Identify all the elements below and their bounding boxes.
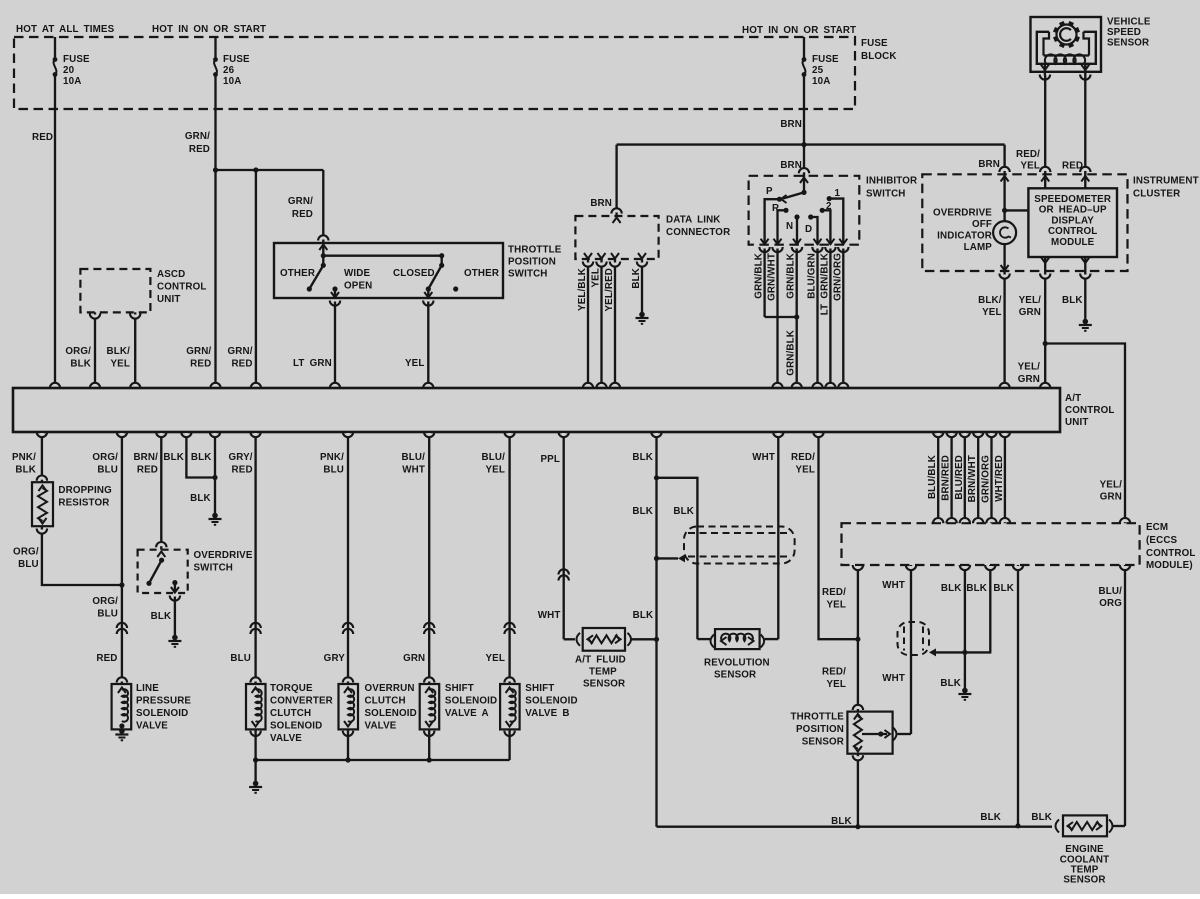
svg-text:SENSOR: SENSOR xyxy=(802,737,844,748)
ECM dashed box xyxy=(842,523,1140,565)
wire YEL/RED from DLC to A/T xyxy=(614,259,616,388)
switch blade 2 (CLOSED) xyxy=(439,263,444,268)
svg-text:GRY: GRY xyxy=(324,653,346,664)
fuse 26 10A xyxy=(214,37,216,60)
svg-text:BLK: BLK xyxy=(1031,812,1052,823)
svg-text:GRN/BLK: GRN/BLK xyxy=(786,253,797,299)
wire BLK from A/T jog xyxy=(186,432,215,478)
svg-text:PNK/: PNK/ xyxy=(12,452,36,463)
svg-text:10A: 10A xyxy=(812,76,830,87)
svg-text:PNK/: PNK/ xyxy=(320,452,344,463)
svg-text:RED/: RED/ xyxy=(1016,149,1040,160)
svg-text:BLK: BLK xyxy=(191,452,212,463)
svg-text:BLK: BLK xyxy=(993,583,1014,594)
svg-text:BRN: BRN xyxy=(780,119,802,130)
vehicle speed sensor lead RED xyxy=(1084,64,1086,76)
svg-text:GRN/: GRN/ xyxy=(228,346,253,357)
svg-text:RED: RED xyxy=(189,144,210,155)
svg-text:INSTRUMENT: INSTRUMENT xyxy=(1133,176,1199,187)
junction dot GRN/RED xyxy=(213,167,218,172)
ground (overdrive switch) xyxy=(172,635,178,641)
overrun clutch solenoid valve xyxy=(339,684,359,729)
svg-text:BLU: BLU xyxy=(230,653,251,664)
svg-text:SPEEDOMETER: SPEEDOMETER xyxy=(1034,194,1111,205)
inhibitor switch dashed box xyxy=(749,176,860,245)
svg-text:GRN/BLK: GRN/BLK xyxy=(786,330,797,376)
A/T control unit box xyxy=(13,388,1060,432)
svg-text:BRN: BRN xyxy=(780,160,802,171)
svg-text:BLK: BLK xyxy=(633,610,654,621)
svg-text:BRN/WHT: BRN/WHT xyxy=(967,455,978,502)
svg-text:SHIFT: SHIFT xyxy=(445,683,474,694)
shift solenoid valve A xyxy=(420,684,440,729)
svg-text:BLK: BLK xyxy=(1062,295,1083,306)
wire GRY/RED from A/T to torque converter clutch solenoid valve xyxy=(254,432,256,684)
svg-text:GRN: GRN xyxy=(1018,374,1040,385)
svg-text:RED: RED xyxy=(32,132,53,143)
svg-text:LINE: LINE xyxy=(136,683,159,694)
svg-text:BLU/: BLU/ xyxy=(1099,586,1123,597)
wire RED/YEL from ECM to throttle position sensor xyxy=(857,565,859,712)
svg-text:RED: RED xyxy=(137,465,158,476)
fuse 20 10A xyxy=(54,37,56,60)
ground (BLK pair) xyxy=(212,513,218,519)
wire BLK/YEL from ASCD to A/T xyxy=(134,312,136,388)
svg-text:SOLENOID: SOLENOID xyxy=(136,708,188,719)
vehicle speed sensor pickup yoke xyxy=(1037,32,1096,64)
wire BRN/RED from A/T to overdrive switch xyxy=(160,432,162,550)
wire BLK from A/T down to bottom bus xyxy=(655,432,657,827)
svg-text:YEL: YEL xyxy=(826,600,846,611)
wire BRN from fuse 25 down to inhibitor switch xyxy=(803,75,805,193)
svg-text:WHT/RED: WHT/RED xyxy=(994,455,1005,502)
svg-text:TORQUE: TORQUE xyxy=(270,683,313,694)
engine coolant temp sensor xyxy=(1056,820,1060,833)
contact 1 xyxy=(827,196,832,201)
inhibitor switch exit arrows and connectors xyxy=(761,239,769,245)
svg-text:BLU/RED: BLU/RED xyxy=(954,455,965,500)
svg-text:OVERDRIVE: OVERDRIVE xyxy=(933,208,992,219)
wire from sensor bottom to bottom bus xyxy=(857,754,859,827)
svg-text:SWITCH: SWITCH xyxy=(508,269,548,280)
svg-text:SHIFT: SHIFT xyxy=(525,683,554,694)
svg-text:BLK: BLK xyxy=(980,812,1001,823)
wire BLU/ORG from ECM to engine coolant temp sensor xyxy=(1124,565,1126,826)
wire PNK/BLU from A/T to overrun clutch solenoid valve xyxy=(347,432,349,684)
svg-text:VALVE: VALVE xyxy=(270,733,302,744)
svg-text:BLK/: BLK/ xyxy=(107,346,131,357)
wire WHT from ECM to throttle position sensor wiper xyxy=(910,565,912,734)
wire YEL/GRN from speedometer to A/T xyxy=(1044,257,1046,388)
svg-text:HOT IN ON OR START: HOT IN ON OR START xyxy=(742,25,856,36)
svg-text:YEL: YEL xyxy=(485,653,505,664)
svg-text:R: R xyxy=(772,203,779,214)
svg-text:RED: RED xyxy=(292,209,313,220)
svg-text:BLU: BLU xyxy=(18,559,39,570)
wire BLK from ECM to bottom bus xyxy=(1017,565,1019,826)
dropping resistor xyxy=(32,482,53,526)
svg-text:CLUTCH: CLUTCH xyxy=(270,708,311,719)
throttle position sensor box xyxy=(847,712,892,754)
svg-text:VALVE A: VALVE A xyxy=(445,708,489,719)
contact P xyxy=(777,197,782,202)
svg-text:VALVE B: VALVE B xyxy=(525,708,569,719)
line pressure solenoid valve xyxy=(112,684,132,729)
svg-text:20: 20 xyxy=(63,65,75,76)
inhibitor switch connector at top xyxy=(802,169,805,172)
svg-text:BRN/: BRN/ xyxy=(133,452,158,463)
ground (data link connector) xyxy=(639,312,645,318)
shield drain to connector capsule xyxy=(657,557,679,559)
svg-text:YEL/: YEL/ xyxy=(1018,362,1041,373)
throttle position switch box xyxy=(274,243,503,298)
svg-text:ORG/: ORG/ xyxy=(92,596,118,607)
ground (speedometer BLK) xyxy=(1083,319,1089,325)
inhibitor switch pivot and blade xyxy=(801,190,806,195)
contact OTHER right xyxy=(453,286,458,291)
contact N xyxy=(794,214,799,219)
vehicle speed sensor lead RED/YEL xyxy=(1044,64,1046,76)
throttle position switch internal wiring xyxy=(322,243,324,265)
throttle position sensor resistor xyxy=(854,716,862,749)
svg-text:YEL/: YEL/ xyxy=(1100,480,1123,491)
svg-text:PRESSURE: PRESSURE xyxy=(136,696,191,707)
wire BLK from ECM to ground xyxy=(964,565,966,689)
wire YEL from switch to A/T xyxy=(427,289,429,298)
svg-text:BRN: BRN xyxy=(590,198,612,209)
svg-text:YEL/RED: YEL/RED xyxy=(604,268,615,312)
svg-text:RED: RED xyxy=(96,653,117,664)
svg-text:INDICATOR: INDICATOR xyxy=(937,231,992,242)
bottom BLK bus xyxy=(657,826,1053,828)
overdrive switch dashed box xyxy=(138,550,188,593)
svg-text:CONTROL: CONTROL xyxy=(1065,405,1114,416)
svg-text:ASCD: ASCD xyxy=(157,269,185,280)
svg-text:OVERDRIVE: OVERDRIVE xyxy=(194,550,253,561)
svg-text:CLUTCH: CLUTCH xyxy=(365,696,406,707)
svg-text:YEL: YEL xyxy=(591,268,602,288)
wire GRN/RED branch to A/T xyxy=(255,170,257,388)
wire PNK/BLK from A/T to dropping resistor xyxy=(41,432,43,482)
wire GRN/BLK jog to GRN/BLK wire xyxy=(765,316,797,318)
svg-text:10A: 10A xyxy=(63,76,81,87)
svg-text:WIDE: WIDE xyxy=(344,268,370,279)
svg-text:BLK: BLK xyxy=(831,816,852,827)
vehicle speed sensor gear rotor xyxy=(1057,25,1077,45)
svg-text:GRN/ORG: GRN/ORG xyxy=(981,455,992,503)
svg-text:BLOCK: BLOCK xyxy=(861,51,897,62)
svg-text:BRN: BRN xyxy=(978,159,1000,170)
svg-text:FUSE: FUSE xyxy=(63,54,90,65)
A/T fluid temp sensor xyxy=(577,633,581,646)
wire YEL/BLK from DLC to A/T xyxy=(587,259,589,388)
svg-text:WHT: WHT xyxy=(538,610,561,621)
wire GRN/RED from fuse 26 xyxy=(214,75,216,389)
svg-text:CONVERTER: CONVERTER xyxy=(270,696,333,707)
wire ORG/BLK from ASCD to A/T xyxy=(94,312,96,388)
svg-text:SWITCH: SWITCH xyxy=(194,563,234,574)
svg-text:YEL/: YEL/ xyxy=(1019,295,1042,306)
svg-text:YEL: YEL xyxy=(405,358,425,369)
wire BLK from A/T to ground xyxy=(214,432,216,514)
svg-text:BLK: BLK xyxy=(941,583,962,594)
svg-text:BLK: BLK xyxy=(151,611,172,622)
wire RED/YEL from A/T xyxy=(819,432,858,639)
junction YEL/GRN branch xyxy=(1043,341,1048,346)
svg-text:CONTROL: CONTROL xyxy=(1048,226,1097,237)
svg-text:RED/: RED/ xyxy=(822,587,846,598)
svg-text:WHT: WHT xyxy=(402,465,425,476)
svg-text:INHIBITOR: INHIBITOR xyxy=(866,176,917,187)
fuse 25 10A xyxy=(803,37,805,60)
svg-text:GRY/: GRY/ xyxy=(228,452,252,463)
wire BLK/YEL from lamp to A/T xyxy=(1003,244,1005,388)
svg-text:ORG/: ORG/ xyxy=(92,452,118,463)
wire BLU/YEL from A/T to shift solenoid valve B xyxy=(508,432,510,684)
svg-text:BLK: BLK xyxy=(632,506,653,517)
svg-text:BRN/RED: BRN/RED xyxy=(941,455,952,501)
solenoid ground bus xyxy=(256,759,510,761)
svg-text:DROPPING: DROPPING xyxy=(58,485,112,496)
svg-text:BLU/: BLU/ xyxy=(482,452,506,463)
svg-text:VALVE: VALVE xyxy=(365,721,397,732)
wire GRN/WHT from inhibitor R to A/T xyxy=(776,249,778,389)
contact R xyxy=(783,208,788,213)
wire BLU/GRN from inhibitor D to A/T xyxy=(816,249,818,389)
overdrive off indicator lamp xyxy=(1002,208,1007,213)
svg-text:UNIT: UNIT xyxy=(1065,417,1088,428)
wire WHT from A/T to revolution sensor xyxy=(777,432,779,639)
wire BLU/WHT from A/T to shift solenoid valve A xyxy=(428,432,430,684)
svg-text:SOLENOID: SOLENOID xyxy=(445,696,497,707)
svg-text:SPEED: SPEED xyxy=(1107,27,1141,38)
svg-text:BLK: BLK xyxy=(632,452,653,463)
wire BLK from ECM jog xyxy=(989,565,991,652)
svg-text:BLU: BLU xyxy=(323,465,344,476)
svg-text:ORG: ORG xyxy=(1099,598,1122,609)
svg-text:CONTROL: CONTROL xyxy=(1146,548,1195,559)
ground (line pressure solenoid valve) xyxy=(119,728,125,734)
svg-text:LT GRN/BLK: LT GRN/BLK xyxy=(820,253,831,315)
wire ORG/BLU from dropping resistor xyxy=(42,526,122,585)
vehicle speed sensor coil xyxy=(1045,54,1085,63)
svg-text:CONNECTOR: CONNECTOR xyxy=(666,227,730,238)
wire BRN into instrument cluster xyxy=(1003,145,1005,221)
vehicle speed sensor box xyxy=(1031,17,1102,72)
svg-text:BLK: BLK xyxy=(190,493,211,504)
svg-text:CONTROL: CONTROL xyxy=(157,282,206,293)
svg-text:A/T: A/T xyxy=(1065,393,1081,404)
svg-text:SWITCH: SWITCH xyxy=(866,189,906,200)
svg-text:YEL: YEL xyxy=(110,359,130,370)
wire BRN into data link connector xyxy=(615,145,617,216)
svg-text:OVERRUN: OVERRUN xyxy=(365,683,415,694)
switch blade 1 (OTHER) xyxy=(321,263,326,268)
wire BRN horizontal bus from fuse 25 xyxy=(617,143,1005,145)
svg-text:SENSOR: SENSOR xyxy=(714,670,756,681)
svg-text:ORG/: ORG/ xyxy=(65,346,91,357)
svg-text:GRN: GRN xyxy=(1100,492,1122,503)
wire GRN/ORG from inhibitor 1 to A/T xyxy=(842,249,844,389)
svg-text:P: P xyxy=(766,186,773,197)
wire RED from fuse 20 to A/T control unit xyxy=(54,75,56,389)
svg-text:YEL: YEL xyxy=(795,465,815,476)
wire LT GRN from switch to A/T xyxy=(334,302,336,389)
svg-text:GRN: GRN xyxy=(403,653,425,664)
revolution sensor xyxy=(697,638,710,640)
svg-text:YEL: YEL xyxy=(1020,161,1040,172)
svg-text:LT GRN: LT GRN xyxy=(293,358,332,369)
ground (solenoid bus) xyxy=(254,760,256,782)
wire BLK from overdrive switch to ground xyxy=(174,597,176,637)
wire LT GRN/BLK from inhibitor 2 to A/T xyxy=(829,249,831,389)
svg-text:OTHER: OTHER xyxy=(280,268,315,279)
svg-text:1: 1 xyxy=(835,188,841,199)
svg-text:BLU: BLU xyxy=(97,609,118,620)
wire PPL from A/T to A/T fluid temp sensor xyxy=(563,432,565,639)
svg-text:25: 25 xyxy=(812,65,824,76)
fuse block dashed box xyxy=(14,37,855,109)
svg-text:FUSE: FUSE xyxy=(861,38,888,49)
svg-text:A/T FLUID: A/T FLUID xyxy=(575,655,626,666)
svg-text:GRN/BLK: GRN/BLK xyxy=(754,253,765,299)
svg-text:SOLENOID: SOLENOID xyxy=(525,696,577,707)
svg-text:POSITION: POSITION xyxy=(508,257,556,268)
svg-text:FUSE: FUSE xyxy=(223,54,250,65)
svg-text:HOT IN ON OR START: HOT IN ON OR START xyxy=(152,24,266,35)
wire YEL/GRN branch to ECM xyxy=(1045,344,1125,524)
svg-text:POSITION: POSITION xyxy=(796,724,844,735)
svg-text:GRN/ORG: GRN/ORG xyxy=(833,253,844,301)
data link connector dashed box xyxy=(575,216,658,259)
svg-text:ORG/: ORG/ xyxy=(13,547,39,558)
svg-text:BLU/: BLU/ xyxy=(402,452,426,463)
svg-text:REVOLUTION: REVOLUTION xyxy=(704,658,770,669)
svg-text:ECM: ECM xyxy=(1146,522,1168,533)
wire GRN/BLK from inhibitor N to A/T xyxy=(796,249,798,389)
svg-text:DISPLAY: DISPLAY xyxy=(1051,215,1094,226)
svg-text:HOT AT ALL TIMES: HOT AT ALL TIMES xyxy=(16,24,115,35)
svg-text:BLU/BLK: BLU/BLK xyxy=(927,455,938,499)
svg-text:OR HEAD–UP: OR HEAD–UP xyxy=(1039,205,1107,216)
svg-text:CLOSED: CLOSED xyxy=(393,268,435,279)
wire YEL from DLC to A/T xyxy=(600,259,602,388)
svg-text:(ECCS: (ECCS xyxy=(1146,535,1178,546)
svg-text:UNIT: UNIT xyxy=(157,294,180,305)
svg-text:2: 2 xyxy=(826,201,832,212)
svg-text:BLK: BLK xyxy=(673,506,694,517)
svg-text:RED: RED xyxy=(232,465,253,476)
torque converter clutch solenoid valve xyxy=(246,684,266,729)
svg-text:YEL: YEL xyxy=(982,307,1002,318)
wire GRN/RED horizontal branch xyxy=(216,169,324,171)
svg-text:WHT: WHT xyxy=(882,580,905,591)
svg-text:MODULE): MODULE) xyxy=(1146,560,1193,571)
svg-text:SOLENOID: SOLENOID xyxy=(365,708,417,719)
svg-text:D: D xyxy=(805,224,812,235)
svg-text:VALVE: VALVE xyxy=(136,721,168,732)
connector capsule (revolution sensor harness) xyxy=(684,527,795,564)
svg-text:BLK: BLK xyxy=(70,359,91,370)
svg-text:YEL/BLK: YEL/BLK xyxy=(577,268,588,311)
svg-text:MODULE: MODULE xyxy=(1051,237,1095,248)
svg-text:RED: RED xyxy=(1062,161,1083,172)
instrument cluster dashed box xyxy=(922,174,1127,271)
svg-text:OTHER: OTHER xyxy=(464,268,499,279)
overdrive switch blade xyxy=(159,558,164,563)
svg-text:OFF: OFF xyxy=(972,219,992,230)
svg-text:BLK: BLK xyxy=(15,465,36,476)
svg-text:BLK: BLK xyxy=(940,678,961,689)
svg-text:THROTTLE: THROTTLE xyxy=(791,712,845,723)
contact D xyxy=(808,214,813,219)
svg-text:BLK: BLK xyxy=(631,268,642,289)
svg-text:YEL: YEL xyxy=(826,679,846,690)
svg-text:BLK/: BLK/ xyxy=(978,295,1002,306)
svg-text:VEHICLE: VEHICLE xyxy=(1107,17,1151,28)
svg-text:DATA LINK: DATA LINK xyxy=(666,215,721,226)
wires BLU/BLK BRN/RED BLU/RED BRN/WHT GRN/ORG WHT/RED from A/T to ECM xyxy=(937,432,939,523)
svg-text:SENSOR: SENSOR xyxy=(583,679,625,690)
wire RED/YEL from VSS to speedometer xyxy=(1044,76,1046,189)
speedometer or head-up display control module box xyxy=(1028,188,1117,257)
svg-text:BLU: BLU xyxy=(97,465,118,476)
wire RED from VSS to speedometer xyxy=(1084,76,1086,189)
wire GRN/RED branch to throttle position switch xyxy=(322,170,324,243)
contact 2 xyxy=(820,208,825,213)
svg-text:GRN/: GRN/ xyxy=(288,196,313,207)
throttle position sensor wiper xyxy=(862,733,887,735)
svg-text:OPEN: OPEN xyxy=(344,281,372,292)
wire BLK jog to revolution sensor xyxy=(657,478,698,639)
svg-text:CLUSTER: CLUSTER xyxy=(1133,189,1180,200)
svg-text:RESISTOR: RESISTOR xyxy=(58,498,109,509)
svg-text:RED/: RED/ xyxy=(822,667,846,678)
svg-text:RED: RED xyxy=(190,359,211,370)
shield drain line to capsule xyxy=(935,651,991,653)
connector capsule (throttle position sensor harness) xyxy=(898,622,930,655)
svg-text:WHT: WHT xyxy=(752,452,775,463)
svg-text:GRN/WHT: GRN/WHT xyxy=(767,253,778,301)
svg-text:BLK: BLK xyxy=(966,583,987,594)
svg-text:N: N xyxy=(786,221,793,232)
svg-text:WHT: WHT xyxy=(882,673,905,684)
ground (ECM BLK) xyxy=(962,688,968,694)
wire GRN/BLK from inhibitor P xyxy=(763,249,765,318)
svg-text:SENSOR: SENSOR xyxy=(1063,875,1105,886)
svg-text:GRN: GRN xyxy=(1019,307,1041,318)
svg-text:FUSE: FUSE xyxy=(812,54,839,65)
shift solenoid valve B xyxy=(500,684,519,729)
overdrive switch contact xyxy=(172,580,177,585)
wire BLK from speedometer to ground xyxy=(1084,257,1086,320)
vehicle speed sensor rotor inner C mark xyxy=(1060,28,1071,41)
svg-text:GRN/: GRN/ xyxy=(186,346,211,357)
wire BLK from DLC to ground xyxy=(641,259,643,313)
svg-text:BLK: BLK xyxy=(163,452,184,463)
svg-text:10A: 10A xyxy=(223,76,241,87)
svg-text:YEL: YEL xyxy=(485,465,505,476)
svg-text:SENSOR: SENSOR xyxy=(1107,38,1149,49)
svg-text:RED: RED xyxy=(231,359,252,370)
svg-text:TEMP: TEMP xyxy=(589,667,617,678)
contact WIDE OPEN xyxy=(332,286,337,291)
svg-text:LAMP: LAMP xyxy=(964,242,993,253)
svg-text:GRN/: GRN/ xyxy=(185,131,210,142)
svg-text:THROTTLE: THROTTLE xyxy=(508,245,562,256)
svg-text:SOLENOID: SOLENOID xyxy=(270,721,322,732)
svg-text:RED/: RED/ xyxy=(791,452,815,463)
